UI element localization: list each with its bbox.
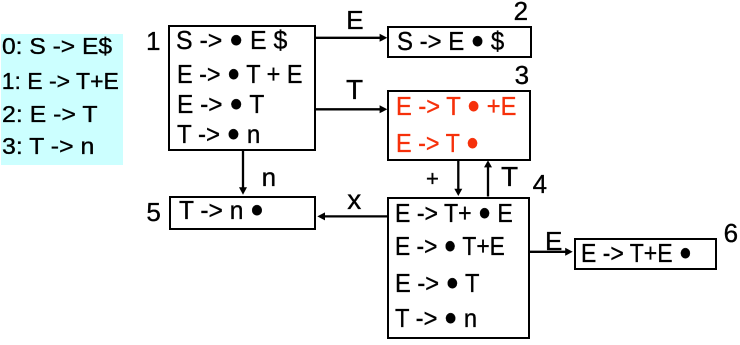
edge label E (4->6) [545, 228, 562, 254]
state 1 item: E -> . T + E [177, 61, 302, 88]
state 1 item: E -> . T [177, 91, 264, 118]
state 2 label [514, 0, 528, 24]
state 3 item (red): E -> T . [396, 130, 479, 157]
state 3 item (red): E -> T . +E [396, 93, 516, 120]
state 4 item: E -> . T [395, 270, 480, 297]
arrow 3->4 on + [454, 161, 462, 197]
state 1 item: S -> . E $ [176, 27, 287, 54]
state 1 item: T -> . n [177, 121, 260, 148]
grammar rule 0 [2, 35, 112, 58]
state 1 label [146, 28, 160, 54]
arrow 1->2 on E [316, 34, 387, 42]
state 3 box [387, 90, 531, 161]
edge label T (4->3) [501, 163, 518, 191]
edge label + (3->4) [426, 168, 439, 190]
state 6 label [724, 220, 738, 246]
arrow 1->5 on n [239, 151, 247, 195]
state 4 item: T -> . n [395, 305, 477, 332]
arrow 4->5 on x [317, 212, 387, 220]
edge label n (1->5) [262, 164, 276, 190]
state 2 item: S -> E . $ [397, 28, 504, 55]
edge label E (1->2) [346, 7, 363, 33]
arrow 1->3 on T [316, 105, 387, 113]
grammar rule 2 [2, 103, 97, 126]
state 6 item: E -> T+E . [581, 240, 692, 267]
state 5 label [146, 199, 160, 225]
arrow 4->3 on T [484, 160, 492, 196]
state 4 item: E -> T+ . E [395, 200, 513, 227]
state 6 box [574, 238, 717, 270]
state 4 label [533, 171, 547, 197]
arrow 4->6 on E [530, 248, 573, 256]
state 4 item: E -> . T+E [395, 233, 505, 260]
state 1 box [168, 25, 316, 151]
state 4 box [387, 197, 530, 339]
edge label x (4->5) [347, 186, 361, 214]
grammar rule 3 [2, 135, 94, 158]
grammar rule 1 [2, 70, 119, 93]
grammar panel (cyan) [1, 34, 123, 165]
edge label T (1->3) [346, 76, 363, 104]
state 5 box [169, 196, 316, 230]
state 2 box [387, 26, 531, 59]
state 5 item: T -> n . [179, 197, 264, 224]
state 3 label [515, 62, 529, 88]
